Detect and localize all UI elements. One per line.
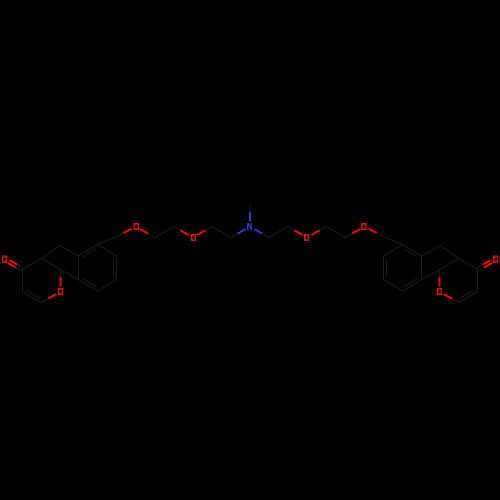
- bond C4a'-C4': [459, 259, 478, 270]
- bond V3-O2e (half A): [174, 227, 181, 231]
- bond V3'-O2e' (half B): [311, 230, 319, 235]
- bond C3=C2 main: [22, 292, 41, 303]
- bond V1-O1e (half A): [117, 233, 124, 237]
- benzene edge BL-TL: [78, 256, 80, 280]
- bond V1'-O1e' (half A): [377, 233, 384, 237]
- bond O1e-V2 (half A): [140, 229, 148, 234]
- benzene' edge TR-BR: [383, 256, 385, 280]
- bond V5'-N (half B): [254, 229, 262, 234]
- bond O2e-V4 (half A): [197, 230, 205, 235]
- double bond C3=C2 inner line: [27, 291, 40, 299]
- bond C2'-O1' (half A): [452, 299, 459, 303]
- bond O1e'-V2' (half B): [345, 234, 352, 238]
- atom label O2e (oxygen): [191, 234, 196, 241]
- bond V5-N (half A): [231, 234, 238, 238]
- bond O1'-C8a' (half A): [439, 277, 441, 286]
- atom label O1 L mirrored (oxygen): [437, 288, 442, 295]
- double bond C4'=O ketone' line1 halfA: [483, 260, 491, 265]
- benzene edge TL-RT: [79, 245, 98, 257]
- bond V2-V3: [155, 227, 174, 238]
- atom label O1e (oxygen): [134, 223, 139, 230]
- benzene' edge BL-TL: [421, 256, 423, 280]
- double bond C4'=O ketone' line2 halfB: [478, 268, 484, 271]
- bond O1'-C8a' (half B): [439, 270, 441, 278]
- double bond C4'=O ketone' line2 halfA: [484, 263, 492, 268]
- benzene TR=BR inner line: [113, 260, 115, 277]
- double bond C4=O ketone line2 halfA: [9, 260, 17, 265]
- bond V5'-N (half A): [262, 234, 269, 238]
- bond V5-N (half B): [238, 229, 246, 234]
- bond V2'-V3': [326, 227, 345, 238]
- benzene' TR=BR inner line: [386, 260, 388, 277]
- bond X1'-TL': [422, 246, 441, 257]
- bond O2e'-V4' (half B): [288, 227, 295, 231]
- double bond C4'=O ketone' line1 halfB: [477, 265, 483, 268]
- atom label O2e mirrored (oxygen): [304, 234, 309, 241]
- benzene TL=RT inner line: [83, 249, 96, 257]
- bond C2'-O1' (half B): [444, 294, 452, 299]
- bond RT-V1: [98, 237, 117, 245]
- benzene' edge RT-TR: [384, 245, 403, 257]
- bond O1-C8a (half B): [60, 270, 62, 278]
- bond X1-TL: [60, 246, 79, 257]
- bond O2e-V4 (half B): [205, 227, 212, 231]
- benzene RB=BL inner line: [83, 279, 96, 287]
- bond C4'-C3': [477, 270, 479, 292]
- atom label O1e mirrored (oxygen): [361, 223, 366, 230]
- atom label ketO L (oxygen): [2, 256, 7, 263]
- atom label N (nitrogen): [247, 223, 252, 230]
- bond C4a'-X1': [441, 246, 459, 259]
- bond O1e'-V2' (half A): [352, 229, 360, 234]
- benzene edge RT-TR: [98, 245, 117, 257]
- bond O1e-V2 (half B): [148, 234, 155, 238]
- atom label O1 L (oxygen): [58, 288, 63, 295]
- bond V3-O2e (half B): [181, 230, 189, 235]
- benzene' edge RB-BL: [403, 280, 422, 292]
- bond C4a-X1: [41, 246, 59, 259]
- bond N-CH3 methyl (half B): [249, 205, 251, 213]
- benzene' edge BR-RB: [384, 280, 403, 292]
- bond V3'-O2e' (half A): [319, 227, 326, 231]
- bond V1-O1e (half B): [123, 229, 131, 233]
- benzene edge RB-BL: [79, 280, 98, 292]
- benzene edge TR-BR: [116, 256, 118, 280]
- benzene edge BR-RB: [98, 280, 117, 292]
- bond C8a'-BL': [422, 270, 440, 280]
- double bond C4=O ketone line1 halfA: [8, 263, 16, 268]
- bond C8a'-C4a': [440, 259, 459, 270]
- bond C8a-C4a: [41, 259, 60, 270]
- atom label ketO L mirrored (oxygen): [493, 256, 498, 263]
- bond V4'-V5': [269, 227, 288, 238]
- bond C3'=C2' main: [459, 292, 478, 303]
- benzene' TL=RT inner line: [404, 249, 417, 257]
- bond RT'-V1': [383, 237, 402, 245]
- bond C2-O1 (half A): [41, 299, 48, 303]
- benzene' edge TL-RT: [403, 245, 422, 257]
- bond C4a-C4: [22, 259, 41, 270]
- bond C4-C3: [21, 270, 23, 292]
- bond V1'-O1e' (half B): [369, 229, 377, 233]
- bond O2e'-V4' (half A): [295, 230, 303, 235]
- double bond C4=O ketone line1 halfB: [16, 268, 22, 271]
- bond N-CH3 methyl (half A): [249, 212, 251, 221]
- double bond C4=O ketone line2 halfB: [17, 265, 23, 268]
- bond C2-O1 (half B): [48, 294, 56, 299]
- bond C8a-BL: [61, 270, 79, 280]
- bond O1-C8a (half A): [60, 277, 62, 286]
- benzene' RB=BL inner line: [404, 279, 417, 287]
- bond V4-V5: [212, 227, 231, 238]
- double bond C3'=C2' inner line: [460, 291, 473, 299]
